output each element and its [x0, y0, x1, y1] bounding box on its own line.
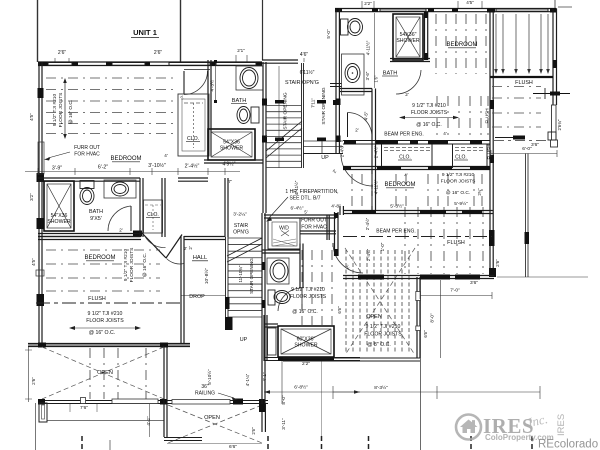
svg-text:2': 2': [332, 168, 338, 174]
hvac inner wall: [326, 215, 328, 240]
svg-text:FLOOR JOISTS: FLOOR JOISTS: [364, 332, 402, 338]
svg-text:BEAM PER ENG.: BEAM PER ENG.: [384, 132, 423, 138]
property line above unit (mid-left): [180, 0, 182, 62]
svg-text:4'9½": 4'9½": [223, 161, 236, 168]
wall below shower c: [204, 159, 263, 161]
svg-text:REcolorado: REcolorado: [538, 439, 598, 450]
wall right of hvac: [334, 212, 336, 256]
joist arrow bl: [73, 327, 137, 329]
svg-text:CLO.: CLO.: [187, 136, 199, 142]
svg-text:STAIR OPN'G: STAIR OPN'G: [285, 80, 319, 86]
bottom wall bedroom2: [28, 344, 190, 347]
door arc bedroom1 top: [184, 71, 208, 95]
beam line 2: [343, 236, 492, 238]
tick above right wall: [554, 0, 556, 9]
bottom centerline ticks: [267, 436, 269, 450]
wall y92 bath: [330, 83, 342, 85]
svg-text:2¾": 2¾": [477, 188, 482, 196]
dash line y140: [494, 140, 548, 142]
joists bedroom3: [351, 174, 353, 208]
wall below wd: [262, 249, 300, 251]
svg-text:9 1/2" TJI #210: 9 1/2" TJI #210: [412, 103, 446, 109]
left outer wall: [38, 62, 40, 346]
svg-text:6'-4½": 6'-4½": [291, 205, 304, 211]
svg-text:4'5": 4'5": [466, 0, 474, 5]
svg-text:3'6": 3'6": [531, 142, 539, 148]
door arc hvac-south: [333, 243, 363, 273]
wall deck2 right: [261, 404, 263, 432]
svg-text:9 1/2" TJI #210: 9 1/2" TJI #210: [52, 94, 58, 127]
shower2 54x36: [393, 14, 423, 60]
svg-text:4'-1¼": 4'-1¼": [245, 373, 250, 386]
svg-text:UP: UP: [321, 155, 329, 161]
beam band y141: [343, 140, 490, 142]
hall right wall: [224, 178, 226, 237]
svg-text:4'5": 4'5": [31, 258, 36, 266]
svg-text:FOR HVAC: FOR HVAC: [74, 152, 100, 158]
property line above unit (left): [37, 0, 39, 62]
property line above stair: [262, 0, 264, 60]
closet B walls: [139, 178, 141, 237]
deck1 lower edge: [47, 420, 164, 422]
deck2 X: [168, 405, 262, 443]
deck1 X: [42, 347, 164, 399]
svg-text:STAIR: STAIR: [234, 223, 249, 229]
svg-text:FLOOR JOISTS: FLOOR JOISTS: [86, 318, 124, 324]
svg-text:4'5": 4'5": [29, 113, 34, 121]
svg-text:W/D: W/D: [279, 226, 289, 232]
svg-text:STAIR OPENING: STAIR OPENING: [249, 258, 254, 294]
svg-text:4'-2": 4'-2": [146, 416, 151, 426]
svg-text:BATH: BATH: [383, 71, 398, 77]
center mark r: [533, 93, 570, 95]
svg-text:9 1/2" TJI #210: 9 1/2" TJI #210: [291, 287, 325, 293]
svg-text:OPEN: OPEN: [97, 370, 113, 376]
svg-text:UP: UP: [240, 337, 248, 343]
bath2 toilet: [251, 107, 259, 123]
svg-text:2'6": 2'6": [154, 50, 163, 56]
toilet top: [341, 19, 349, 35]
door arc stair to bedroom3: [341, 154, 373, 186]
svg-text:IRES: IRES: [556, 414, 567, 436]
svg-text:Inc.: Inc.: [526, 411, 550, 430]
svg-text:FURR OUT: FURR OUT: [74, 145, 100, 151]
wall x162 closet right: [161, 178, 163, 237]
svg-text:2'-4¾": 2'-4¾": [366, 248, 371, 261]
svg-text:3'-11": 3'-11": [281, 418, 286, 430]
svg-text:UNIT 1: UNIT 1: [133, 28, 157, 37]
wall below shower3: [264, 357, 360, 359]
bedroom2 double door: [141, 232, 166, 258]
svg-text:6'6": 6'6": [423, 330, 428, 338]
top wall of unit (y62) with windows: [38, 61, 262, 63]
svg-text:2'6": 2'6": [251, 427, 256, 435]
watermark circle: [456, 415, 481, 440]
svg-text:11'-10¾": 11'-10¾": [238, 265, 243, 282]
bath3 right wall: [299, 244, 301, 289]
svg-text:STAIR OPENING: STAIR OPENING: [321, 87, 327, 124]
stair left wall x263: [262, 62, 264, 213]
svg-text:FLOOR JOISTS: FLOOR JOISTS: [290, 294, 327, 300]
svg-text:9 1/2" TJI #210: 9 1/2" TJI #210: [123, 249, 129, 282]
joists v center: [301, 250, 303, 325]
shower 54x36 (center): [208, 129, 255, 160]
svg-text:2'-4½": 2'-4½": [365, 217, 370, 230]
stair treads left flight: [266, 105, 301, 107]
svg-text:10'-8½": 10'-8½": [203, 268, 210, 285]
svg-text:SHOWER: SHOWER: [220, 146, 244, 152]
svg-text:4'-3½": 4'-3½": [209, 78, 215, 91]
svg-text:FLUSH: FLUSH: [447, 240, 465, 246]
wall x428 shower right: [424, 12, 426, 60]
svg-text:7'11": 7'11": [311, 98, 316, 108]
shower1 54x36: [44, 181, 74, 231]
wall above shower3: [264, 323, 278, 325]
svg-text:2'6¾": 2'6¾": [557, 119, 562, 130]
right outer wall x553: [552, 9, 554, 106]
svg-text:HALL: HALL: [193, 255, 208, 261]
svg-text:2': 2': [188, 246, 193, 249]
wall x208 vertical: [207, 60, 209, 156]
svg-text:6'-2": 6'-2": [98, 165, 108, 171]
svg-text:OPEN: OPEN: [366, 314, 382, 320]
wall below shower2: [390, 58, 430, 60]
deck rail y400: [38, 400, 268, 402]
wall segment above stairs y60: [262, 59, 298, 61]
svg-text:CLO.: CLO.: [147, 212, 159, 218]
svg-text:BEDROOM: BEDROOM: [446, 42, 477, 48]
stair2 treads: [228, 237, 262, 239]
bath tower left wall x336: [335, 9, 337, 63]
stair2 left rail: [225, 237, 227, 330]
flush area joist arrows: [495, 14, 497, 70]
svg-text:4'-8": 4'-8": [331, 204, 341, 210]
deck bottom L: [164, 437, 202, 439]
deck1 joists: [89, 348, 91, 399]
svg-text:CLO.: CLO.: [399, 155, 411, 161]
svg-text:2'1": 2'1": [237, 48, 245, 53]
upper-right top wall y8.5: [335, 8, 556, 10]
svg-text:@ 16" O.C.: @ 16" O.C.: [292, 309, 317, 315]
svg-text:BEDROOM: BEDROOM: [84, 255, 115, 261]
right wall x490: [489, 12, 491, 277]
svg-text:2'2": 2'2": [364, 1, 372, 6]
wall above bath1 y178: [38, 177, 140, 179]
wd box: [268, 218, 300, 249]
svg-text:4': 4': [443, 131, 447, 136]
svg-text:8'-3½": 8'-3½": [374, 384, 388, 391]
joists bedroom4: [435, 14, 437, 74]
wall below bath1: [38, 233, 140, 235]
stair dim vline: [278, 66, 280, 168]
svg-text:FLOOR JOISTS: FLOOR JOISTS: [411, 110, 448, 116]
bath2 vanity: [236, 66, 263, 90]
svg-text:6'6": 6'6": [229, 444, 237, 450]
svg-text:FLOOR JOISTS: FLOOR JOISTS: [129, 248, 135, 283]
wall x181 bedroom2 right: [180, 236, 182, 343]
svg-text:9 1/2" TJI #210: 9 1/2" TJI #210: [88, 311, 123, 317]
watermark house: [460, 420, 478, 434]
svg-text:BEAM PER ENG.: BEAM PER ENG.: [376, 229, 415, 235]
dim row y171: [25, 171, 240, 173]
svg-text:3'-6": 3'-6": [365, 71, 370, 80]
svg-text:4'-11½": 4'-11½": [374, 179, 379, 194]
thin wall x525: [525, 154, 527, 278]
svg-text:2'6": 2'6": [31, 377, 36, 385]
bath1 door arc: [108, 206, 131, 231]
svg-text:3'2": 3'2": [29, 193, 34, 201]
porch bottom wall: [343, 275, 494, 277]
open3 X: [345, 248, 415, 355]
svg-text:2'6": 2'6": [58, 50, 67, 56]
svg-text:SHOWER: SHOWER: [294, 343, 318, 349]
svg-text:STAIR OPENING: STAIR OPENING: [283, 92, 289, 129]
svg-text:4': 4': [164, 153, 168, 158]
svg-text:4'-11½": 4'-11½": [294, 180, 299, 195]
svg-text:@ 16" O.C.: @ 16" O.C.: [416, 122, 441, 128]
wall above wd y213: [264, 214, 336, 216]
stair2 diag: [227, 244, 262, 262]
svg-text:FLOOR JOISTS: FLOOR JOISTS: [441, 179, 476, 185]
gray line right: [497, 276, 588, 278]
svg-text:FLUSH: FLUSH: [485, 108, 490, 123]
svg-text:7': 7': [228, 179, 232, 185]
svg-text:5'-9½": 5'-9½": [454, 200, 468, 207]
svg-text:1'6": 1'6": [374, 75, 379, 82]
beam box r: [548, 132, 556, 140]
vanity1: [104, 180, 136, 198]
svg-text:CLO.: CLO.: [455, 155, 467, 161]
wall below closets: [343, 166, 490, 168]
svg-text:2'-4½": 2'-4½": [340, 144, 345, 157]
joists bedroom top-left: [46, 77, 175, 79]
closet C2: [452, 144, 454, 168]
svg-text:@ 16" O.C.: @ 16" O.C.: [446, 190, 470, 196]
svg-text:6'6": 6'6": [337, 306, 342, 314]
svg-text:1'-0": 1'-0": [380, 242, 385, 251]
svg-text:@ 8" O.C.: @ 8" O.C.: [367, 342, 391, 348]
wall x164 deck right: [163, 347, 165, 437]
hall top wall y178 right: [178, 177, 208, 179]
svg-text:2'-4½": 2'-4½": [185, 163, 200, 170]
svg-text:OPEN: OPEN: [204, 415, 220, 421]
svg-text:@ 16" O.C.: @ 16" O.C.: [68, 100, 74, 124]
svg-text:4'-5": 4'-5": [364, 111, 369, 120]
porch joists: [404, 207, 406, 274]
svg-text:3'-9": 3'-9": [52, 166, 62, 172]
svg-text:BATH: BATH: [89, 209, 103, 215]
flush beam: [36, 302, 181, 304]
svg-text:6'11½": 6'11½": [300, 69, 315, 76]
svg-text:FLUSH: FLUSH: [88, 296, 106, 302]
stair col left wall x262 lower: [261, 213, 263, 332]
svg-text:FURR OUT: FURR OUT: [301, 218, 327, 224]
svg-text:BEDROOM: BEDROOM: [110, 156, 141, 162]
stair right wall x336: [335, 62, 337, 153]
svg-text:5'-10½": 5'-10½": [206, 369, 212, 385]
stair mid rail: [301, 63, 303, 168]
svg-text:FOR HVAC: FOR HVAC: [301, 225, 327, 231]
bath3 toilet: [268, 290, 275, 305]
dim vline x321: [321, 361, 323, 436]
svg-text:2': 2': [119, 228, 123, 233]
svg-text:9'X5': 9'X5': [90, 216, 102, 222]
svg-text:3'-2¼": 3'-2¼": [233, 212, 247, 218]
svg-text:6'-8½": 6'-8½": [294, 384, 308, 391]
door arc hall-bedroom3: [348, 113, 373, 138]
svg-text:7'6": 7'6": [80, 405, 88, 411]
svg-text:2': 2': [355, 128, 359, 133]
closet C1: [381, 144, 383, 168]
svg-text:OPN'G: OPN'G: [233, 230, 249, 236]
svg-text:BEDROOM: BEDROOM: [384, 182, 415, 188]
joists flush lower: [492, 86, 541, 88]
stair diag break: [266, 128, 302, 158]
joists bedroom2: [46, 249, 160, 251]
svg-text:FLUSH: FLUSH: [515, 80, 533, 86]
below ticks left: [35, 403, 37, 450]
svg-text:BATH: BATH: [232, 98, 247, 104]
bath3 sink: [267, 258, 289, 284]
dim vline x282: [281, 361, 283, 404]
svg-text:7'-0": 7'-0": [450, 288, 460, 294]
svg-text:4'-11½": 4'-11½": [366, 40, 371, 55]
svg-text:3'6": 3'6": [470, 280, 478, 286]
svg-text:4'6": 4'6": [300, 52, 309, 58]
svg-text:5'-3½": 5'-3½": [390, 203, 404, 210]
dim vline x149: [149, 404, 151, 437]
svg-text:DROP: DROP: [189, 294, 205, 300]
bath2 door arc: [396, 70, 421, 94]
svg-text:2'2": 2'2": [302, 361, 310, 367]
wall x372: [371, 89, 373, 212]
deck1 left dim line: [28, 347, 30, 402]
svg-text:6'-0": 6'-0": [522, 146, 532, 152]
closet A box: [178, 94, 209, 156]
drop dim line: [181, 295, 226, 297]
svg-text:@ 16" O.C.: @ 16" O.C.: [89, 330, 115, 336]
svg-text:FLOOR JOISTS: FLOOR JOISTS: [58, 93, 64, 128]
open3 joists: [345, 250, 347, 354]
svg-text:2'6": 2'6": [495, 259, 500, 267]
vline deck right x420: [420, 277, 422, 450]
bath3 door arc: [278, 288, 302, 311]
svg-text:@ 16" O.C.: @ 16" O.C.: [142, 253, 148, 277]
flush beam y77: [490, 76, 553, 78]
svg-text:2'-4½": 2'-4½": [374, 145, 379, 158]
linen box left of shower: [268, 328, 277, 355]
svg-text:9 1/2" TJI #210: 9 1/2" TJI #210: [366, 324, 401, 330]
svg-text:8'-0": 8'-0": [430, 313, 435, 323]
vanity2 top: [342, 54, 365, 95]
wall y88 bath2: [340, 88, 372, 90]
joist arrow: [64, 83, 66, 134]
svg-text:2': 2': [345, 264, 351, 270]
svg-text:8'-0": 8'-0": [281, 395, 286, 405]
svg-text:SEE DTL. B/7: SEE DTL. B/7: [289, 196, 320, 202]
shower 60x36: [278, 326, 334, 357]
svg-text:SHOWER: SHOWER: [47, 219, 71, 225]
toilet1: [80, 181, 94, 189]
open3 boundary: [416, 277, 418, 358]
svg-text:2': 2': [405, 92, 409, 97]
stair dim ticks: [275, 100, 284, 104]
svg-text:5'-0": 5'-0": [326, 29, 331, 39]
svg-text:3'-10½": 3'-10½": [148, 162, 166, 169]
bath2 sink: [240, 68, 258, 89]
left post detail: [39, 403, 47, 422]
svg-text:RAILING: RAILING: [195, 391, 215, 397]
sink2 top: [345, 64, 360, 83]
svg-text:5': 5': [304, 210, 307, 215]
svg-text:9 1/2" TJI #210: 9 1/2" TJI #210: [442, 172, 475, 178]
joists below bath: [436, 96, 438, 135]
svg-text:SHOWER: SHOWER: [396, 38, 420, 44]
stair landing treads: [304, 140, 344, 142]
wall below bedroom3: [343, 210, 493, 212]
wall y236 hall: [38, 236, 141, 238]
